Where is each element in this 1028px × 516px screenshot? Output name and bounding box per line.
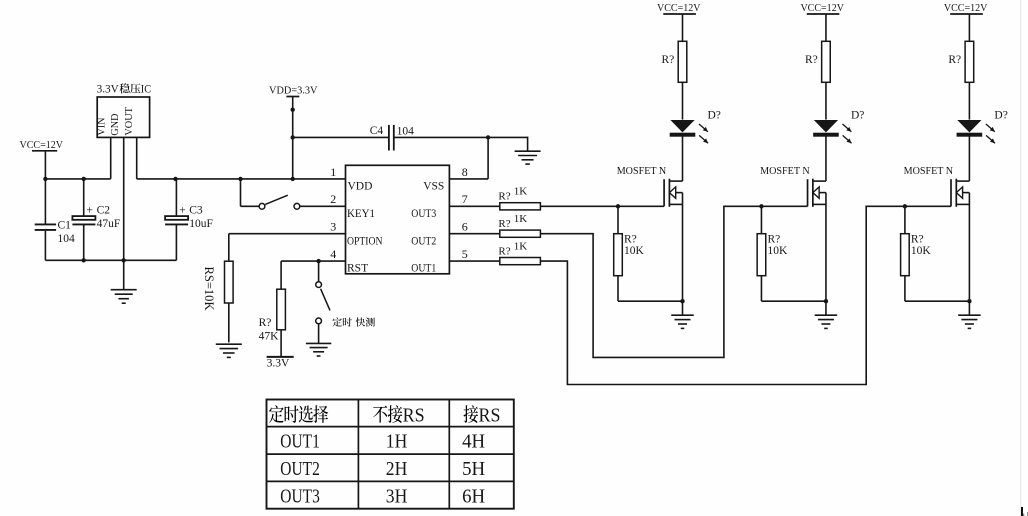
svg-text:C3: C3 xyxy=(189,204,203,216)
wire key branch down xyxy=(240,179,242,206)
svg-text:10K: 10K xyxy=(767,245,788,257)
wire gate node to 10K xyxy=(760,206,762,233)
svg-text:4: 4 xyxy=(330,247,336,261)
LED D? xyxy=(670,120,694,132)
switch S? timing test xyxy=(316,282,322,288)
wire to ground (cell 3) xyxy=(968,301,970,315)
wire pin3 to RS xyxy=(229,233,346,235)
node pin4 tee xyxy=(316,259,320,263)
table timing selection xyxy=(267,400,514,509)
wire rail-B (3.3V rail) to IC pin1 xyxy=(137,178,346,180)
wire 10K to source rail xyxy=(760,276,762,302)
svg-text:IC: IC xyxy=(141,84,151,96)
svg-text:VOUT: VOUT xyxy=(124,107,135,136)
wire source down (cell 1) xyxy=(682,193,684,302)
node C2 bottom junction xyxy=(82,258,86,262)
wire pin5 stub xyxy=(449,260,499,262)
svg-text:104: 104 xyxy=(58,233,76,245)
svg-text:R?: R? xyxy=(498,191,510,203)
wire LED to drain xyxy=(968,136,970,181)
wire VSS riser to pin8 xyxy=(487,137,489,179)
wire LED to drain xyxy=(682,136,684,181)
wire VCC to R2 xyxy=(825,14,827,41)
node VSS riser junction xyxy=(486,135,490,139)
table header bu-jie-RS xyxy=(373,406,387,423)
capacitor C4 104 xyxy=(293,136,389,138)
svg-text:47K: 47K xyxy=(259,330,280,342)
svg-text:R?: R? xyxy=(805,54,818,66)
svg-text:VDD: VDD xyxy=(348,181,373,193)
svg-text:+: + xyxy=(86,202,93,216)
node gate junction (cell 2) xyxy=(759,204,763,208)
page edge faint line xyxy=(1020,0,1022,516)
svg-text:1K: 1K xyxy=(514,213,528,225)
svg-text:2: 2 xyxy=(330,192,336,206)
switch S? KEY1 xyxy=(259,203,265,209)
svg-text:D?: D? xyxy=(708,110,721,122)
node gate junction (cell 1) xyxy=(616,204,620,208)
svg-text:OUT3: OUT3 xyxy=(280,486,320,508)
wire to ground (cell 1) xyxy=(682,301,684,315)
wire switch to ground xyxy=(318,324,320,343)
svg-text:3H: 3H xyxy=(386,486,408,508)
svg-text:D?: D? xyxy=(851,110,864,122)
svg-text:GND: GND xyxy=(110,113,121,135)
svg-text:VCC=12V: VCC=12V xyxy=(800,2,844,14)
svg-text:47uF: 47uF xyxy=(97,218,121,230)
svg-text:6: 6 xyxy=(462,220,468,234)
ground (cell 1) xyxy=(671,314,694,316)
wire pin4 tee down to switch xyxy=(318,261,320,282)
resistor R? 1K (pin 7) xyxy=(500,203,541,210)
wire RS to ground xyxy=(228,303,230,342)
svg-text:D?: D? xyxy=(994,110,1007,122)
ground (cell 2) xyxy=(815,314,838,316)
LED D? xyxy=(957,120,981,132)
wire pin6 stub xyxy=(449,233,499,235)
svg-text:R?: R? xyxy=(259,317,272,329)
resistor RS=10K xyxy=(225,261,234,303)
svg-text:1: 1 xyxy=(330,165,336,179)
node source-rail junction (cell 3) xyxy=(967,299,971,303)
svg-text:OUT2: OUT2 xyxy=(411,235,436,247)
svg-text:104: 104 xyxy=(397,125,415,137)
wire source down (cell 2) xyxy=(825,193,827,302)
svg-text:R?: R? xyxy=(624,234,637,246)
node key branch junction xyxy=(238,177,242,181)
svg-text:OPTION: OPTION xyxy=(347,235,383,247)
svg-text:OUT3: OUT3 xyxy=(411,208,436,220)
svg-text:1K: 1K xyxy=(514,240,528,252)
svg-text:3.3V: 3.3V xyxy=(267,358,290,370)
wire source down (cell 3) xyxy=(968,193,970,302)
wire to ground (cell 2) xyxy=(825,301,827,315)
svg-text:VCC=12V: VCC=12V xyxy=(944,2,988,14)
wire switch to pin2 xyxy=(300,205,346,207)
resistor R? 10K (cell 3) xyxy=(901,234,910,276)
wire R to LED D3 xyxy=(968,82,970,119)
svg-text:MOSFET N: MOSFET N xyxy=(760,165,810,177)
svg-text:1K: 1K xyxy=(514,186,528,198)
resistor R? 47K xyxy=(277,289,286,330)
node C4 tee xyxy=(291,135,295,139)
wire R to LED D2 xyxy=(825,82,827,119)
wire pin6 route to gate 2 xyxy=(540,206,807,357)
table header jie-RS xyxy=(463,405,478,423)
svg-text:RS: RS xyxy=(403,405,425,426)
svg-text:3.3V: 3.3V xyxy=(97,84,120,96)
corner mark xyxy=(1021,507,1023,516)
svg-text:4H: 4H xyxy=(462,431,485,453)
wire VOUT down to rail-B xyxy=(136,137,138,179)
svg-text:VCC=12V: VCC=12V xyxy=(657,2,701,14)
wire 10K to source rail xyxy=(617,276,619,302)
resistor R? (load 3) xyxy=(965,41,974,82)
wire VCC to R3 xyxy=(968,14,970,41)
svg-text:RS=10K: RS=10K xyxy=(202,267,216,311)
wire LED to drain xyxy=(825,136,827,181)
node C2 top junction xyxy=(82,177,86,181)
svg-text:VDD=3.3V: VDD=3.3V xyxy=(269,84,318,96)
svg-text:R?: R? xyxy=(662,54,675,66)
svg-text:R?: R? xyxy=(911,234,924,246)
svg-text:10K: 10K xyxy=(911,245,932,257)
table header ding-shi-xuan-ze xyxy=(269,405,284,423)
wire R to LED D1 xyxy=(682,82,684,119)
svg-text:R?: R? xyxy=(767,234,780,246)
wire gate node to 10K xyxy=(904,206,906,233)
svg-text:7: 7 xyxy=(462,192,468,206)
wire VDD down to rail-B xyxy=(292,97,294,179)
svg-text:10K: 10K xyxy=(624,245,645,257)
wire VCC to R1 xyxy=(682,14,684,41)
node rail-A VCC junction xyxy=(43,177,47,181)
svg-text:10uF: 10uF xyxy=(189,218,213,230)
svg-text:1H: 1H xyxy=(386,431,408,453)
svg-text:C1: C1 xyxy=(58,220,72,232)
wire C4 to ground xyxy=(527,137,529,151)
svg-text:RST: RST xyxy=(347,263,368,275)
svg-text:VSS: VSS xyxy=(423,181,444,193)
node C3 top junction xyxy=(173,177,177,181)
svg-text:3: 3 xyxy=(330,220,336,234)
wire pin4 left xyxy=(281,260,345,262)
ground (C4 / VSS) xyxy=(515,150,541,152)
wire rail-A to VIN xyxy=(45,178,110,180)
svg-text:R?: R? xyxy=(948,54,961,66)
resistor R? 1K (pin 5) xyxy=(500,258,541,265)
svg-text:2H: 2H xyxy=(386,458,408,480)
node GND stem junction xyxy=(122,258,126,262)
wire regulator GND down xyxy=(123,137,125,289)
resistor R? (load 1) xyxy=(678,41,687,82)
wire pin7 to gate 1 xyxy=(540,205,664,207)
wire 10K to source rail xyxy=(904,276,906,302)
svg-text:OUT2: OUT2 xyxy=(280,458,320,480)
wire VCC to rail xyxy=(44,151,46,179)
ground (test switch) xyxy=(306,342,331,344)
svg-text:OUT1: OUT1 xyxy=(280,431,320,453)
svg-text:KEY1: KEY1 xyxy=(347,208,375,220)
svg-text:VCC=12V: VCC=12V xyxy=(20,139,64,151)
IC U? timer (8-pin) xyxy=(346,165,450,273)
resistor R? (load 2) xyxy=(822,41,831,82)
ground (regulator) xyxy=(111,289,137,291)
wire gate node to 10K xyxy=(617,206,619,233)
svg-text:C4: C4 xyxy=(370,125,384,137)
node VDD branch junction xyxy=(291,177,295,181)
wire down to R-47K xyxy=(280,261,282,289)
resistor R? 10K (cell 1) xyxy=(614,234,623,276)
ground (cell 3) xyxy=(958,314,981,316)
svg-text:6H: 6H xyxy=(462,486,485,508)
capacitor C2 47uF xyxy=(83,179,85,216)
label timing-test (ding shi kuai ce) xyxy=(333,317,342,326)
capacitor C1 104 xyxy=(44,179,46,224)
wire 47K to 3.3V xyxy=(280,330,282,357)
svg-text:OUT1: OUT1 xyxy=(411,263,436,275)
svg-text:MOSFET N: MOSFET N xyxy=(617,165,667,177)
wire pin7 stub xyxy=(449,205,499,207)
node on VDD wire xyxy=(291,108,295,112)
svg-text:VIN: VIN xyxy=(97,117,108,135)
LED D? xyxy=(814,120,838,132)
svg-text:+: + xyxy=(179,202,186,216)
resistor R? 10K (cell 2) xyxy=(757,234,766,276)
ground (RS) xyxy=(216,343,242,345)
node source-rail junction (cell 2) xyxy=(824,299,828,303)
svg-text:R?: R? xyxy=(498,218,510,230)
svg-text:MOSFET N: MOSFET N xyxy=(904,165,954,177)
svg-text:5: 5 xyxy=(462,247,468,261)
wire ground rail (bottom left) xyxy=(45,259,176,261)
svg-text:R?: R? xyxy=(498,246,510,258)
node source-rail junction (cell 1) xyxy=(680,299,684,303)
capacitor C3 10uF xyxy=(175,179,177,216)
resistor R? 1K (pin 6) xyxy=(500,230,541,237)
svg-text:8: 8 xyxy=(462,165,468,179)
svg-text:C2: C2 xyxy=(97,204,111,216)
wire pin5 route to gate 3 xyxy=(540,206,951,384)
power 3.3V rail symbol xyxy=(267,356,294,358)
svg-text:RS: RS xyxy=(479,405,501,426)
node gate junction (cell 3) xyxy=(903,204,907,208)
svg-text:5H: 5H xyxy=(462,458,485,480)
